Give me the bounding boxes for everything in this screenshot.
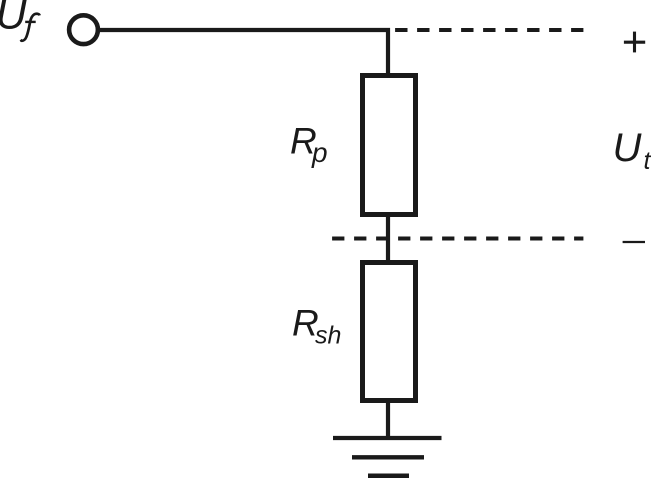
wire: Rp bottom to Rsh top [386, 214, 390, 263]
label U_f [0, 0, 40, 41]
wire: Rsh bottom to ground [386, 400, 390, 438]
label Rp [290, 120, 328, 168]
ground [333, 438, 442, 476]
minus sign [623, 241, 645, 243]
resistor Rsh [363, 263, 416, 401]
svg-text:p: p [311, 137, 328, 168]
svg-text:sh: sh [315, 322, 341, 350]
label Ut [613, 126, 651, 175]
svg-text:t: t [644, 147, 651, 175]
label Rsh [292, 303, 341, 350]
svg-text:U: U [613, 126, 643, 170]
node − : bottom dashed line [332, 237, 583, 241]
terminal circle (Uf input) [69, 15, 98, 44]
resistor Rp [363, 76, 416, 215]
svg-text:U: U [0, 0, 28, 39]
wire: Uf terminal to Rp top (horizontal then vertical) [98, 30, 388, 75]
node + : top dashed line [395, 28, 583, 32]
plus sign [624, 32, 645, 53]
